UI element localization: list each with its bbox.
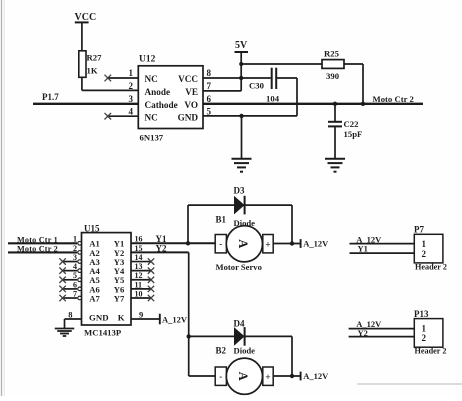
svg-text:Anode: Anode	[145, 87, 171, 97]
svg-text:-: -	[219, 372, 222, 382]
svg-text:1: 1	[422, 323, 427, 333]
svg-text:MC1413P: MC1413P	[84, 327, 122, 337]
svg-text:A7: A7	[89, 293, 100, 303]
svg-text:13: 13	[135, 262, 143, 271]
svg-text:104: 104	[266, 94, 280, 104]
svg-text:Moto Ctr 2: Moto Ctr 2	[373, 94, 414, 104]
svg-text:6N137: 6N137	[140, 133, 164, 143]
svg-text:VCC: VCC	[75, 12, 97, 23]
svg-text:A_12V: A_12V	[303, 239, 329, 249]
svg-text:D3: D3	[234, 185, 245, 195]
svg-text:6: 6	[207, 94, 212, 104]
svg-text:1K: 1K	[87, 66, 98, 76]
svg-text:14: 14	[135, 253, 143, 262]
svg-text:Cathode: Cathode	[145, 100, 178, 110]
svg-text:Y2: Y2	[156, 243, 167, 253]
svg-text:Y7: Y7	[114, 293, 125, 303]
svg-text:VCC: VCC	[178, 74, 198, 84]
svg-text:Header 2: Header 2	[415, 262, 447, 271]
svg-text:A: A	[236, 372, 250, 381]
svg-text:K: K	[118, 313, 125, 323]
svg-text:Y2: Y2	[358, 328, 368, 338]
svg-text:7: 7	[73, 289, 77, 298]
svg-text:9: 9	[139, 309, 143, 319]
svg-text:P13: P13	[414, 309, 429, 319]
svg-text:C30: C30	[249, 81, 265, 91]
svg-text:5: 5	[207, 106, 212, 116]
svg-text:U15: U15	[84, 224, 100, 234]
svg-text:C22: C22	[344, 119, 359, 129]
svg-text:VE: VE	[185, 87, 198, 97]
svg-text:11: 11	[135, 280, 143, 289]
svg-text:A_12V: A_12V	[303, 371, 329, 381]
svg-text:8: 8	[68, 309, 72, 319]
svg-text:P1.7: P1.7	[42, 92, 59, 102]
svg-text:5: 5	[73, 271, 77, 280]
svg-text:NC: NC	[145, 112, 158, 122]
svg-text:3: 3	[73, 253, 77, 262]
svg-text:R25: R25	[324, 49, 340, 59]
svg-text:VO: VO	[184, 100, 198, 110]
svg-text:A: A	[236, 239, 250, 248]
svg-text:B1: B1	[216, 214, 227, 224]
svg-text:GND: GND	[178, 112, 199, 122]
svg-text:Motor Servo: Motor Servo	[216, 262, 262, 272]
svg-text:GND: GND	[89, 313, 109, 323]
svg-text:390: 390	[326, 71, 340, 81]
svg-text:3: 3	[129, 94, 134, 104]
svg-text:7: 7	[207, 81, 212, 91]
svg-text:1: 1	[129, 68, 134, 78]
svg-text:4: 4	[129, 106, 134, 116]
svg-text:+: +	[265, 241, 270, 251]
svg-text:D4: D4	[234, 319, 245, 329]
svg-text:1: 1	[73, 235, 77, 244]
svg-text:Diode: Diode	[234, 346, 256, 356]
svg-text:5V: 5V	[235, 40, 248, 51]
svg-text:2: 2	[129, 81, 134, 91]
svg-text:R27: R27	[87, 53, 103, 63]
svg-text:1: 1	[422, 239, 427, 249]
svg-text:-: -	[219, 239, 222, 249]
svg-text:+: +	[265, 373, 270, 383]
svg-text:8: 8	[207, 68, 212, 78]
svg-text:A_12V: A_12V	[162, 314, 188, 324]
svg-text:NC: NC	[145, 74, 158, 84]
svg-text:6: 6	[73, 280, 77, 289]
svg-text:2: 2	[422, 249, 427, 259]
svg-text:Y1: Y1	[358, 244, 368, 254]
svg-text:U12: U12	[139, 55, 156, 65]
svg-text:4: 4	[73, 262, 77, 271]
svg-text:P7: P7	[414, 225, 424, 235]
svg-text:B2: B2	[216, 345, 227, 355]
svg-text:10: 10	[135, 289, 143, 298]
svg-text:12: 12	[135, 271, 143, 280]
svg-text:Header 2: Header 2	[415, 347, 447, 356]
svg-text:2: 2	[422, 333, 427, 343]
svg-text:15pF: 15pF	[344, 129, 363, 139]
svg-text:2: 2	[73, 244, 77, 253]
